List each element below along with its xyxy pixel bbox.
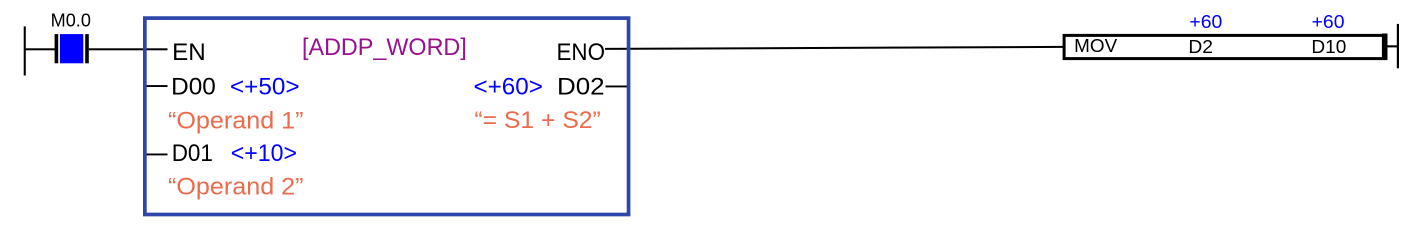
svg-text:<+60>: <+60> [474,73,543,100]
wire: MOV box to right rail [1387,45,1397,47]
svg-text:ENO: ENO [557,39,606,66]
svg-text:D10: D10 [1311,37,1346,57]
svg-text:D02: D02 [557,73,605,100]
right power rail [1397,24,1399,68]
function block [ADDP_WORD] border [145,18,629,214]
wire: ENO output to MOV box [605,46,1064,50]
svg-text:M0.0: M0.0 [51,10,91,30]
svg-text:D2: D2 [1188,37,1213,57]
svg-text:<+50>: <+50> [230,73,300,100]
svg-text:+60: +60 [1312,12,1345,32]
svg-text:D00: D00 [171,73,216,100]
svg-text:EN: EN [172,39,206,66]
wire: contact M0.0 to EN input stub [89,48,168,50]
instruction box MOV [1064,35,1386,58]
svg-text:D01: D01 [172,140,213,167]
instruction box MOV right end bar [1382,34,1388,60]
svg-text:“Operand 1”: “Operand 1” [168,107,304,134]
pin stub D00 [145,85,168,87]
svg-text:[ADDP_WORD]: [ADDP_WORD] [302,34,467,61]
pin stub D02 [606,86,629,88]
contact M0.0 (normally-open, energized) [55,34,89,63]
svg-text:+60: +60 [1189,12,1222,32]
svg-text:“= S1 + S2”: “= S1 + S2” [474,107,600,134]
svg-text:MOV: MOV [1074,36,1117,56]
svg-text:<+10>: <+10> [231,140,297,167]
svg-text:“Operand 2”: “Operand 2” [168,174,304,201]
left power rail [24,26,26,75]
wire: left rail to contact M0.0 [24,48,55,50]
pin stub D01 [145,154,168,156]
